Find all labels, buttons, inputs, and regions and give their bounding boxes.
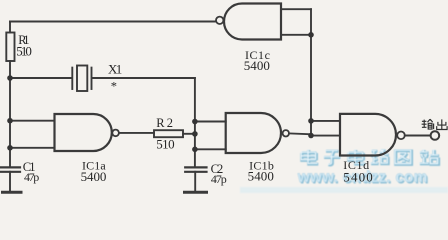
出 [437,119,447,129]
wire: C2 to ground [194,172,196,191]
node: junction right rail / IC1c lower input [308,32,314,38]
wire: R2 to mid rail [183,133,195,135]
capacitor C1 [1,167,21,171]
terminal 输出 circle [431,131,440,140]
resistor R2 [154,130,183,137]
wire: crystal to mid rail [92,77,195,79]
wire: IC1b input wires [195,122,226,150]
wire: mid rail vertical [194,78,196,167]
svg-text:*: * [111,79,117,93]
svg-text:47p: 47p [24,170,39,184]
svg-text:510: 510 [16,43,32,58]
node: junction right rail / IC1d input 2 [308,133,314,139]
wire: left rail R1 bottom to C1 [9,61,11,167]
watermark faint bottom strip [240,187,448,193]
svg-text:47p: 47p [211,172,227,186]
NAND gate IC1c (mirrored, faces left) [224,4,281,40]
NAND gate IC1b [226,113,281,153]
capacitor C2 [185,167,206,171]
wire: IC1a output to R2 [119,132,154,134]
crystal X1 [72,66,91,92]
wire: IC1b output to right rail [289,132,311,135]
svg-text:510: 510 [156,136,174,151]
svg-text:5400: 5400 [81,169,107,184]
wire: crystal branch horizontal left [10,77,72,79]
NAND gate IC1d [340,114,396,156]
node: junction mid rail / R2 [192,131,198,137]
node: junction left rail / IC1a input 1 [7,118,13,124]
wire: IC1a input wires [10,121,55,148]
svg-text:X1: X1 [108,62,122,77]
node: junction left rail / crystal [7,75,13,81]
NAND gate IC1a [55,114,112,151]
node: junction right rail / IC1d input 1 [308,118,314,124]
bubble IC1a output [112,130,119,137]
bubble IC1c output [216,17,223,24]
wire: IC1d input wires [311,121,340,136]
svg-text:5400: 5400 [248,169,274,184]
svg-text:5400: 5400 [343,170,373,185]
bubble IC1b output [283,130,289,136]
wire: IC1d output to terminal [405,135,431,137]
node: junction mid rail / IC1b input 1 [192,119,198,125]
wire: left rail upper (corner to R1 top) [9,22,11,33]
label 输出 (output) drawn as strokes [422,119,448,129]
node: junction mid rail / IC1b input 2 [192,147,198,153]
ground bar C1 [3,191,22,194]
wire: C1 to ground [9,172,11,191]
ground bar C2 [185,191,207,194]
node: junction left rail / IC1a input 2 [7,145,13,151]
wire: IC1c input wires to right rail [281,9,311,35]
wire: right rail vertical [310,9,312,135]
resistor R1 [6,33,14,62]
输 [422,119,434,129]
watermark line2 www. cndzz. com [297,169,429,187]
bubble IC1d output [397,132,405,140]
svg-text:5400: 5400 [244,58,270,73]
wire: top output wire from IC1c to left rail [10,21,216,23]
